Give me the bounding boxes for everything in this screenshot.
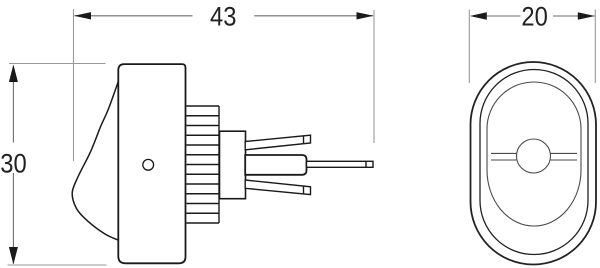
extension line 43 left <box>73 9 75 161</box>
rocker actuator (curved lever, side view) <box>72 82 118 241</box>
terminal middle thin pin <box>307 161 374 167</box>
arrow 43 right <box>357 12 374 19</box>
extension line top-left (30 dim, top) <box>9 63 106 65</box>
arrow 30 up <box>9 65 18 83</box>
svg-text:30: 30 <box>0 149 26 179</box>
front view: outer bezel (stadium) <box>471 62 597 265</box>
front view: inner bezel rim <box>480 70 588 255</box>
arrow 43 left <box>74 12 91 19</box>
svg-text:20: 20 <box>521 2 547 32</box>
dimension line 30 (vertical, split around text) <box>12 66 14 143</box>
terminal middle blade <box>245 155 306 175</box>
dimension line 43 <box>75 15 193 17</box>
extension line bottom-left (30 dim, bottom) <box>8 264 107 266</box>
pivot circle on body <box>143 159 154 170</box>
svg-text:43: 43 <box>210 2 236 32</box>
front view: indicator circle <box>517 139 551 173</box>
front view: rocker split lines <box>491 153 577 160</box>
arrow 20 left <box>470 12 487 19</box>
switch body (side view housing) <box>118 64 185 263</box>
terminal pin top (angled) <box>245 135 310 150</box>
terminal base block <box>220 131 246 199</box>
terminal pin bottom (angled) <box>245 180 310 195</box>
arrow 30 down <box>9 247 18 265</box>
front view: rocker face <box>487 82 581 226</box>
arrow 20 right <box>578 12 595 19</box>
dimension line 20 <box>485 15 521 17</box>
mounting ribs block <box>186 106 219 223</box>
extension line 43 right <box>373 10 375 143</box>
extension line 20 left <box>468 10 470 84</box>
extension line 20 right <box>594 10 596 84</box>
